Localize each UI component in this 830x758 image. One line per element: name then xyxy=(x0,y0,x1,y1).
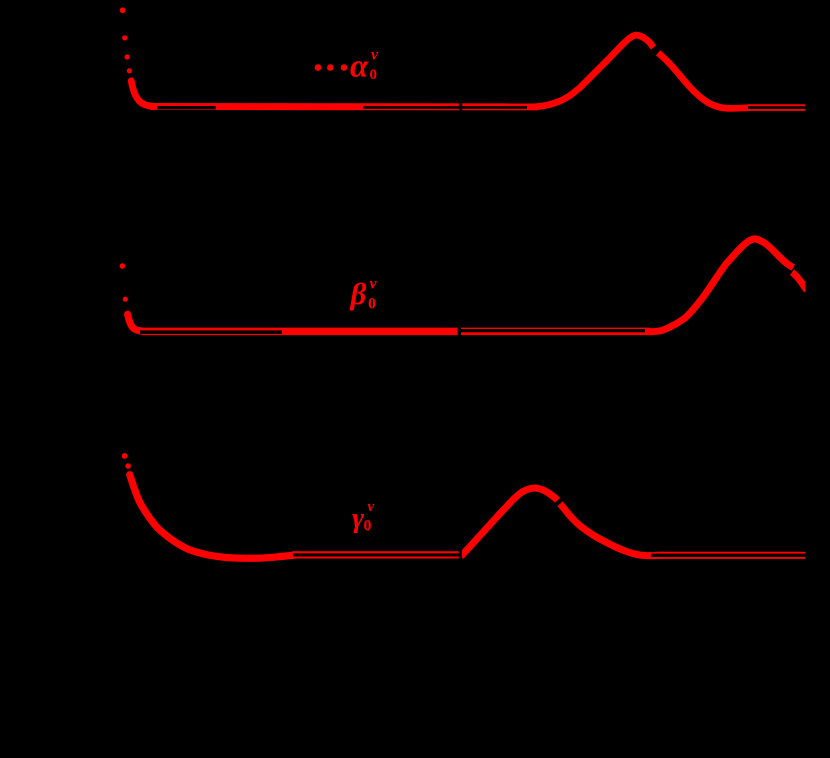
svg-text:ν: ν xyxy=(368,499,375,515)
svg-text:ν: ν xyxy=(371,47,379,64)
svg-text:ν: ν xyxy=(370,276,378,293)
svg-text:0: 0 xyxy=(370,67,378,83)
svg-text:0: 0 xyxy=(364,517,372,534)
svg-text:0: 0 xyxy=(368,296,376,313)
svg-text:β: β xyxy=(350,276,367,311)
svg-text:α: α xyxy=(350,49,369,85)
